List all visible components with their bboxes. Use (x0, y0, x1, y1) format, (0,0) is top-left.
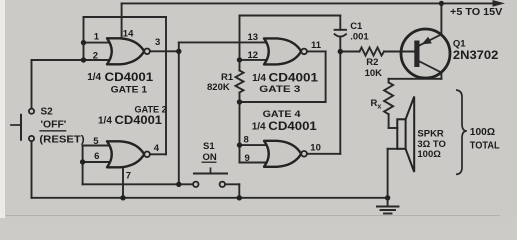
svg-text:.001: .001 (350, 32, 369, 43)
wire: bottom ground rail (32, 197, 388, 199)
node: gate2 pin6 junction (80, 159, 85, 164)
wire: Rx top lead (388, 79, 390, 83)
left page margin strip (0, 0, 5, 218)
svg-text:C1: C1 (350, 21, 363, 32)
node: R1 bottom junction (237, 99, 242, 104)
wire: speaker bottom terminal (388, 148, 398, 150)
svg-text:TOTAL: TOTAL (470, 141, 500, 152)
svg-text:(RESET): (RESET) (39, 135, 84, 146)
wire: +V top rail (122, 2, 496, 4)
gate 3 output bubble (301, 49, 307, 55)
svg-text:R2: R2 (366, 57, 378, 68)
wire: gate 4 output (307, 153, 341, 155)
op-amp U1 / NOR gate 1 body (107, 38, 144, 64)
switch S2 top contact (29, 109, 34, 114)
node: pin12 / R1 top junction (237, 57, 242, 62)
switch S1 left contact (193, 182, 198, 187)
speaker SPKR cone (406, 97, 415, 173)
switch S1 right contact (220, 182, 225, 187)
svg-text:100Ω: 100Ω (417, 149, 441, 160)
svg-text:GATE 3: GATE 3 (259, 84, 300, 95)
wire: R1 bottom lead down to gate4 inputs (239, 93, 241, 163)
svg-text:2N3702: 2N3702 (453, 48, 499, 62)
svg-text:7: 7 (126, 171, 131, 182)
wire: gate2 pin 6 input (83, 161, 111, 163)
svg-text:100Ω: 100Ω (470, 127, 495, 138)
wire: collector to Rx horizontal (389, 78, 442, 80)
wire: gate1 output down riser to S1 line (178, 51, 180, 184)
svg-text:1/4: 1/4 (87, 72, 101, 83)
svg-text:CD4001: CD4001 (268, 119, 317, 133)
wire: gate2 pins 5-6 tie and down to S1 line (82, 146, 84, 185)
wire: Rx bottom lead (388, 114, 390, 128)
node: speaker/ground junction (385, 195, 390, 200)
svg-text:4: 4 (154, 143, 160, 154)
wire: S1 right to ground rail (225, 183, 239, 185)
resistor Rx zigzag (384, 82, 393, 114)
svg-text:CD4001: CD4001 (105, 70, 154, 84)
transistor Q1 emitter lead (420, 34, 442, 45)
wire: gate1 pin 2 input (84, 59, 112, 61)
svg-text:1/4: 1/4 (98, 116, 112, 127)
NOR gate 2 body (107, 141, 144, 167)
wire: speaker to ground rail (387, 149, 389, 198)
node: C1 / R2 / gate4 output junction (338, 49, 343, 54)
wire: gate4 pin 9 input (240, 162, 267, 164)
wire: gate4 output riser up to C1 node (339, 52, 341, 154)
node: pin8 junction (237, 142, 242, 147)
svg-text:S1: S1 (203, 141, 215, 152)
capacitor C1 straight plate (335, 29, 346, 31)
wire: latch feedback box top (84, 16, 167, 18)
gate 4 output bubble (301, 151, 307, 157)
svg-text:9: 9 (245, 153, 250, 164)
wire: C1 link down to pin 12 node (239, 16, 241, 60)
wire: gate2 output (150, 153, 166, 155)
capacitor C1 bottom lead (339, 37, 341, 52)
ground bar 3 (384, 213, 392, 215)
capacitor C1 curved plate (335, 34, 346, 36)
gate 2 output bubble (144, 152, 150, 158)
svg-text:11: 11 (311, 40, 322, 51)
wire: pin 12 input to gate 3 (240, 59, 270, 61)
resistor R2 zigzag (360, 48, 385, 56)
svg-text:5: 5 (93, 136, 99, 147)
underline OFF (39, 130, 66, 131)
wire: gate1 output to node (150, 50, 179, 52)
svg-text:14: 14 (123, 28, 134, 39)
switch S2 actuator stem (11, 124, 21, 126)
wire: pin2 to S2 horizontal (32, 59, 84, 61)
wire: Rx to speaker top terminal (389, 127, 398, 129)
svg-text:GATE 1: GATE 1 (111, 84, 148, 95)
speaker SPKR driver rectangle (397, 119, 405, 149)
NOR gate 4 body (264, 141, 301, 167)
node: pin7 on ground rail (120, 195, 125, 200)
svg-text:12: 12 (248, 50, 259, 61)
svg-text:13: 13 (248, 32, 259, 43)
switch S2 actuator bar (20, 115, 22, 140)
transistor Q1 base bar (414, 41, 419, 68)
wire: S1 right drop (238, 184, 240, 198)
wire: S2 upper riser (31, 60, 33, 109)
wire: gate4 pin 8 input (240, 144, 267, 146)
node: S1 drop on ground rail (237, 195, 242, 200)
wire: gate 3 output (305, 50, 325, 52)
ground bar 1 (377, 206, 399, 208)
svg-text:2: 2 (93, 50, 98, 61)
transistor Q1 collector lead (420, 62, 442, 73)
wire: R1 node to gate3 output horizontal (240, 101, 326, 103)
svg-text:1: 1 (94, 32, 100, 43)
wire: gate2 pin 5 input (83, 145, 111, 147)
svg-text:3: 3 (155, 37, 160, 48)
node: gate1 output junction (176, 49, 181, 54)
svg-text:SPKR: SPKR (417, 128, 444, 139)
svg-text:CD4001: CD4001 (115, 113, 163, 127)
wire: R2 to Q1 base (384, 51, 414, 53)
NOR gate 3 body (264, 38, 301, 64)
ground stub (387, 198, 389, 206)
switch S1 actuator bar (194, 173, 227, 175)
wire: pin 14 riser to gate 1 (121, 3, 123, 38)
node: +V rail emitter junction (439, 1, 444, 6)
svg-text:8: 8 (244, 134, 249, 145)
transistor Q1 emitter arrow (PNP) (422, 37, 432, 45)
svg-text:ON: ON (203, 152, 217, 163)
svg-text:S2: S2 (41, 107, 54, 118)
+V arrowhead (493, 0, 506, 7)
wire: latch feedback box right (down to gate 2 output) (165, 17, 167, 154)
wire: S1 feedback line (83, 183, 194, 185)
underline ON (202, 162, 217, 163)
svg-text:820K: 820K (207, 82, 230, 93)
wire: pin 13 wire to gate 3 (179, 41, 269, 43)
svg-text:10K: 10K (365, 68, 383, 79)
transistor Q1 circle (401, 29, 450, 78)
wire: C1 top link horizontal (240, 15, 341, 17)
svg-text:'OFF': 'OFF' (41, 120, 67, 131)
resistor R1 zigzag (236, 71, 244, 93)
svg-text:1/4: 1/4 (252, 73, 266, 84)
wire: collector down stub (440, 73, 442, 79)
brace for total resistance (456, 90, 467, 174)
svg-text:10: 10 (310, 143, 321, 154)
switch S1 actuator stem (210, 168, 212, 173)
bottom faint rule (6, 215, 500, 216)
wire: S2 lower riser to ground rail (31, 141, 33, 198)
switch S2 bottom contact (29, 136, 34, 141)
node: pin1 junction (81, 40, 86, 45)
wire: emitter riser from +V rail (440, 3, 442, 34)
wire: gate1 pin 1 input (84, 42, 112, 44)
wire: latch feedback box left (pins 1-2 node up) (83, 17, 85, 60)
wire: riser up to gate 3 output (325, 51, 327, 102)
wire: node jog up to pin 13 level (178, 42, 180, 51)
wire: gate2 pin 7 drop to ground rail (122, 167, 124, 198)
wire: C1 node to R2 (340, 51, 359, 53)
svg-text:6: 6 (94, 151, 99, 162)
node: pin2 junction (81, 57, 86, 62)
svg-text:+5 TO 15V: +5 TO 15V (450, 6, 502, 18)
capacitor C1 top lead (339, 16, 341, 30)
svg-text:CD4001: CD4001 (269, 71, 319, 85)
ground bar 2 (381, 209, 396, 211)
wire: R1 top lead (239, 60, 241, 71)
svg-text:1/4: 1/4 (252, 121, 266, 132)
gate 1 output bubble (144, 49, 150, 55)
node: S1 line junction (176, 182, 181, 187)
